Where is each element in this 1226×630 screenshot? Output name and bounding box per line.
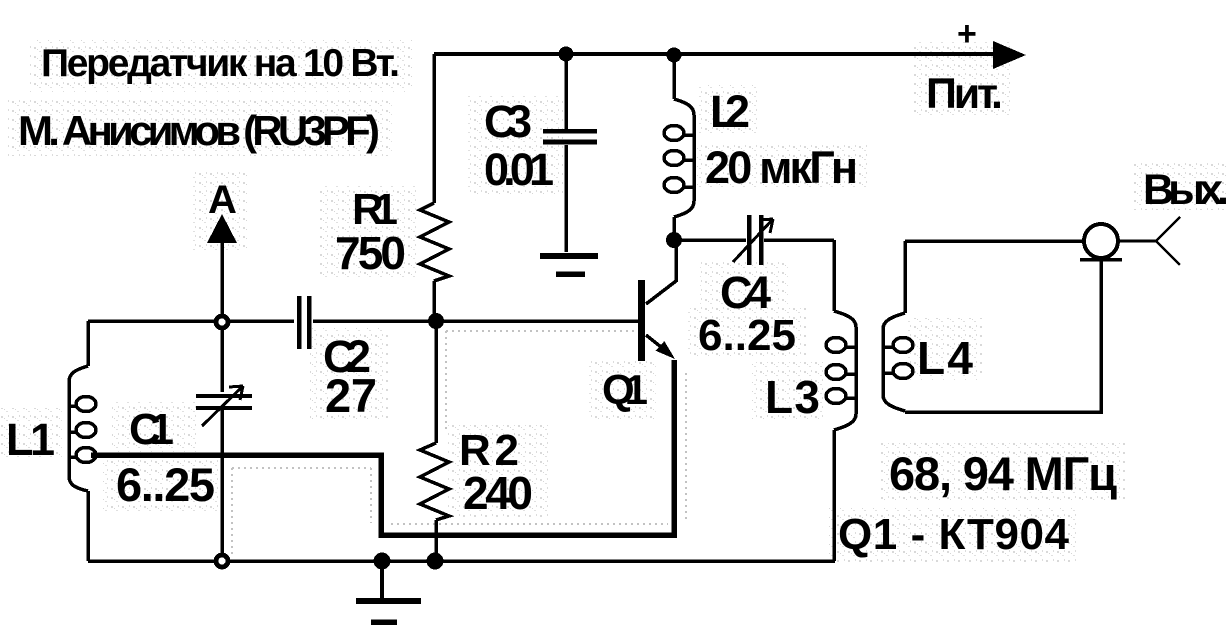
svg-text:27: 27: [325, 369, 377, 422]
svg-text:240: 240: [463, 467, 533, 519]
antenna output symbol: [1156, 217, 1180, 265]
capacitor C3: [543, 54, 597, 252]
node collector junction dot: [666, 232, 682, 248]
inductor L3: [826, 240, 856, 561]
wire output loop top: [905, 239, 1084, 243]
svg-text:0.01: 0.01: [484, 144, 554, 195]
node top rail junction C3: [559, 47, 574, 62]
node bottom left junction circle: [216, 555, 228, 567]
svg-text:C3: C3: [484, 96, 532, 147]
node antenna junction circle: [216, 316, 228, 328]
svg-text:L2: L2: [710, 86, 750, 137]
ground main: [356, 561, 421, 622]
power supply arrow: [993, 41, 1026, 69]
svg-text:L1: L1: [6, 414, 55, 465]
wire bottom ground rail: [88, 559, 835, 563]
wire middle section of base rail: [313, 319, 638, 323]
wire left section of base rail: [88, 319, 294, 323]
inductor L1: [69, 321, 96, 561]
svg-text:C1: C1: [129, 405, 174, 454]
svg-text:Q1 - КТ904: Q1 - КТ904: [838, 510, 1070, 559]
wire socket to antenna symbol: [1118, 240, 1156, 243]
antenna arrow: [207, 214, 237, 318]
svg-text:6..25: 6..25: [698, 311, 796, 360]
node ground junction 1: [374, 553, 391, 570]
node top rail junction L2: [667, 48, 682, 63]
capacitor C4 variable: [733, 215, 773, 265]
wire top supply rail: [434, 52, 1010, 56]
svg-text:750: 750: [335, 227, 406, 279]
wire C4 to L3: [764, 238, 834, 242]
node ground junction 2: [427, 553, 444, 570]
svg-text:6..25: 6..25: [116, 458, 215, 511]
ground under C3: [540, 256, 598, 274]
connector output socket: [1080, 224, 1122, 260]
inductor L4: [883, 241, 913, 412]
transistor Q1: [638, 240, 676, 361]
svg-text:Пит.: Пит.: [926, 70, 1003, 118]
resistor R2: [420, 321, 449, 561]
capacitor C1 variable: [196, 326, 252, 556]
svg-text:68, 94 МГц: 68, 94 МГц: [889, 447, 1117, 500]
wire collector junction to C4: [674, 238, 746, 242]
wire output loop bottom: [905, 261, 1101, 412]
svg-text:Q1: Q1: [602, 366, 648, 413]
inductor L2: [664, 54, 694, 240]
node base junction dot: [428, 313, 444, 329]
wire thick tap from L1 to emitter: [91, 360, 674, 535]
svg-text:Передатчик на 10 Вт.: Передатчик на 10 Вт.: [41, 42, 400, 85]
svg-text:L3: L3: [765, 371, 820, 423]
capacitor C2: [299, 296, 309, 349]
svg-text:Вых.: Вых.: [1143, 166, 1226, 214]
svg-text:20 мкГн: 20 мкГн: [705, 142, 858, 193]
svg-text:М. Анисимов (RU3PF): М. Анисимов (RU3PF): [18, 107, 380, 154]
resistor R1: [420, 54, 449, 321]
svg-text:+: +: [957, 15, 977, 53]
